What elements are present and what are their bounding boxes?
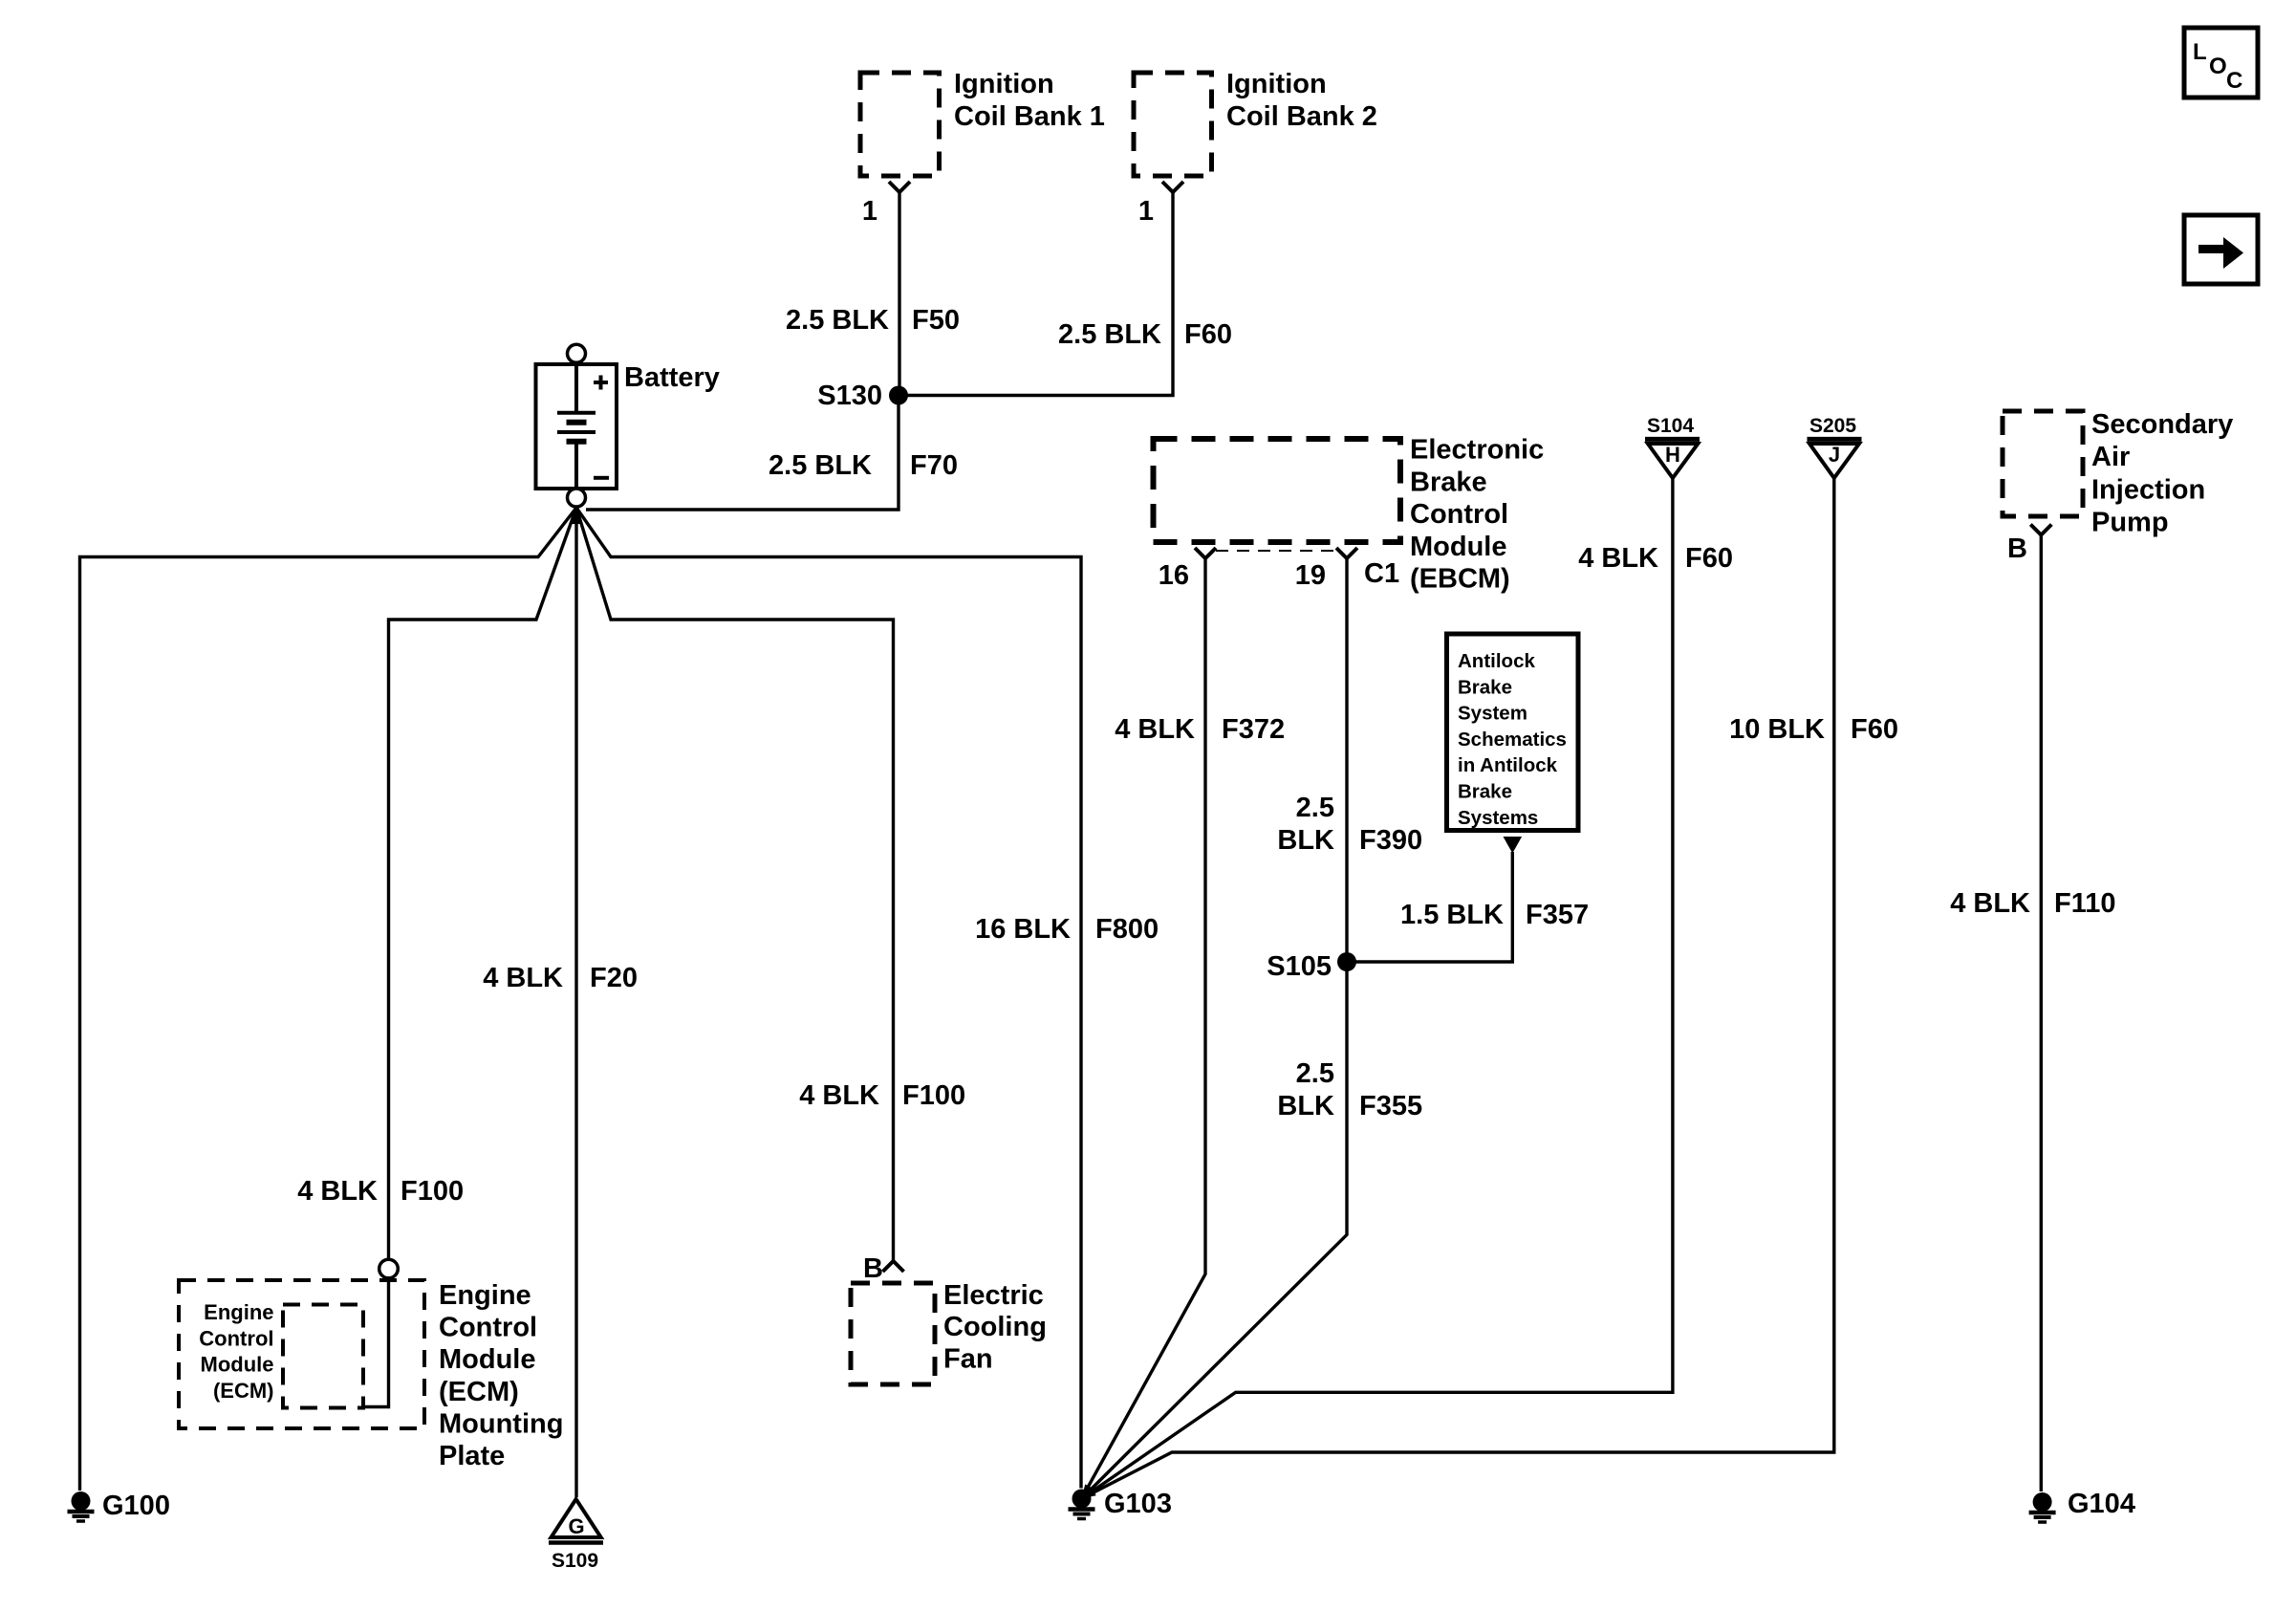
svg-text:Coil Bank 1: Coil Bank 1: [954, 101, 1105, 132]
svg-text:16: 16: [1159, 560, 1189, 591]
svg-text:(EBCM): (EBCM): [1410, 564, 1510, 595]
svg-text:F800: F800: [1095, 914, 1159, 945]
svg-text:16 BLK: 16 BLK: [975, 914, 1071, 945]
svg-text:Brake: Brake: [1458, 781, 1512, 803]
svg-text:BLK: BLK: [1277, 1091, 1334, 1121]
svg-text:O: O: [2209, 54, 2227, 79]
svg-text:2.5 BLK: 2.5 BLK: [1058, 319, 1161, 350]
svg-text:Control: Control: [1410, 499, 1508, 530]
svg-text:Control: Control: [439, 1313, 537, 1343]
svg-text:1: 1: [1138, 196, 1154, 227]
svg-text:4 BLK: 4 BLK: [1115, 714, 1195, 745]
svg-text:(ECM): (ECM): [213, 1379, 274, 1403]
svg-text:Mounting: Mounting: [439, 1408, 563, 1439]
svg-text:2.5 BLK: 2.5 BLK: [769, 450, 872, 481]
svg-text:Module: Module: [201, 1353, 274, 1377]
svg-text:G100: G100: [102, 1491, 170, 1521]
svg-text:B: B: [863, 1253, 883, 1284]
svg-text:S205: S205: [1809, 415, 1856, 437]
svg-text:G104: G104: [2068, 1489, 2135, 1519]
svg-text:4 BLK: 4 BLK: [1950, 888, 2030, 919]
svg-text:10 BLK: 10 BLK: [1729, 714, 1825, 745]
svg-text:Brake: Brake: [1410, 467, 1487, 497]
svg-text:Brake: Brake: [1458, 676, 1512, 698]
svg-text:G103: G103: [1104, 1489, 1172, 1519]
svg-text:Control: Control: [199, 1326, 273, 1350]
svg-text:1: 1: [862, 196, 877, 227]
svg-text:F60: F60: [1851, 714, 1898, 745]
svg-text:Cooling: Cooling: [943, 1312, 1047, 1342]
svg-text:Battery: Battery: [624, 362, 720, 393]
svg-text:Pump: Pump: [2091, 508, 2169, 538]
svg-text:Coil Bank 2: Coil Bank 2: [1226, 101, 1377, 132]
svg-text:4 BLK: 4 BLK: [297, 1176, 378, 1207]
svg-text:System: System: [1458, 703, 1527, 725]
svg-text:B: B: [2007, 533, 2027, 564]
svg-text:Engine: Engine: [204, 1300, 273, 1324]
svg-text:S105: S105: [1267, 951, 1332, 982]
svg-text:F60: F60: [1685, 543, 1733, 574]
svg-text:S130: S130: [817, 381, 882, 411]
svg-text:2.5: 2.5: [1296, 1058, 1334, 1089]
svg-text:F357: F357: [1526, 900, 1589, 930]
svg-text:2.5 BLK: 2.5 BLK: [786, 305, 889, 336]
svg-text:Engine: Engine: [439, 1280, 531, 1311]
svg-text:4 BLK: 4 BLK: [799, 1080, 879, 1111]
svg-text:F50: F50: [912, 305, 960, 336]
svg-text:J: J: [1829, 443, 1840, 467]
svg-text:Systems: Systems: [1458, 807, 1538, 829]
svg-text:F100: F100: [902, 1080, 965, 1111]
svg-text:4 BLK: 4 BLK: [1578, 543, 1658, 574]
svg-text:Air: Air: [2091, 442, 2130, 472]
svg-text:Secondary: Secondary: [2091, 409, 2233, 440]
svg-text:BLK: BLK: [1277, 825, 1334, 856]
svg-text:C: C: [2226, 68, 2242, 94]
svg-text:Electronic: Electronic: [1410, 435, 1544, 466]
svg-text:F20: F20: [590, 963, 638, 993]
svg-text:F110: F110: [2054, 888, 2116, 919]
svg-text:L: L: [2193, 39, 2207, 65]
svg-text:G: G: [568, 1514, 584, 1538]
svg-text:F100: F100: [401, 1176, 464, 1207]
svg-text:Plate: Plate: [439, 1441, 505, 1471]
svg-text:F60: F60: [1184, 319, 1232, 350]
svg-text:Schematics: Schematics: [1458, 729, 1567, 751]
svg-text:2.5: 2.5: [1296, 793, 1334, 823]
svg-text:Ignition: Ignition: [954, 69, 1054, 99]
svg-text:Electric: Electric: [943, 1280, 1044, 1311]
svg-text:4 BLK: 4 BLK: [483, 963, 563, 993]
svg-text:Antilock: Antilock: [1458, 650, 1535, 672]
svg-text:H: H: [1665, 443, 1680, 467]
svg-text:S109: S109: [552, 1550, 598, 1572]
svg-text:Injection: Injection: [2091, 474, 2205, 505]
svg-text:F372: F372: [1222, 714, 1285, 745]
svg-text:in Antilock: in Antilock: [1458, 754, 1558, 776]
svg-text:F70: F70: [910, 450, 958, 481]
svg-text:Ignition: Ignition: [1226, 69, 1327, 99]
svg-text:19: 19: [1295, 560, 1326, 591]
svg-text:C1: C1: [1364, 558, 1399, 589]
svg-text:1.5 BLK: 1.5 BLK: [1400, 900, 1504, 930]
svg-text:Module: Module: [439, 1344, 536, 1375]
svg-text:Fan: Fan: [943, 1343, 993, 1374]
svg-text:F355: F355: [1359, 1091, 1422, 1121]
svg-text:Module: Module: [1410, 532, 1507, 562]
svg-text:(ECM): (ECM): [439, 1377, 519, 1407]
svg-text:F390: F390: [1359, 825, 1422, 856]
svg-text:S104: S104: [1647, 415, 1694, 437]
